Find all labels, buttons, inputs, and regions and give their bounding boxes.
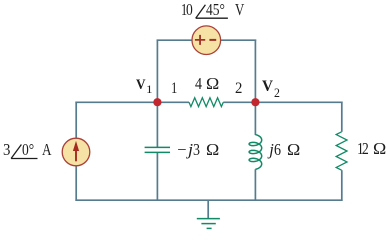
angle slash of 3/0 label	[11, 145, 21, 159]
wire: top loop horizontal right of source	[221, 39, 257, 41]
label node V1	[136, 78, 146, 92]
label ohm (right resistor)	[373, 141, 386, 158]
wire: bottom wire	[75, 199, 342, 201]
underline of 3/0 label	[11, 158, 37, 160]
ground bar 1	[197, 218, 220, 220]
label 0 deg (current source angle)	[22, 142, 34, 159]
label terminal 2	[235, 81, 242, 97]
node V2 dot	[251, 98, 259, 106]
label terminal 1	[171, 81, 177, 97]
wire: capacitor branch vertical below plates	[156, 153, 158, 201]
capacitor -j3 bottom plate	[145, 151, 170, 153]
label ohm (inductor)	[287, 142, 300, 159]
label node V1 subscript	[146, 85, 153, 97]
wire: right branch vertical below 12-ohm	[341, 170, 343, 201]
label 3 (current source magnitude)	[3, 142, 10, 159]
wire: top loop horizontal left of source	[157, 39, 193, 41]
voltage source U circle	[192, 26, 221, 55]
wire: left branch vertical above current source	[75, 102, 77, 139]
wire: inductor branch vertical below coil	[254, 169, 256, 201]
ground bar 2	[201, 223, 215, 225]
ground stem	[207, 200, 209, 218]
label 45 deg (voltage source angle)	[206, 2, 225, 19]
label 12 (right resistor value)	[357, 141, 364, 158]
label 10 (voltage source magnitude)	[181, 2, 187, 19]
label node V2	[262, 79, 273, 95]
label A unit (current source)	[42, 142, 52, 159]
wire: capacitor branch vertical above plates	[156, 102, 158, 147]
label j (capacitor value)	[188, 142, 193, 159]
node V1 dot	[153, 98, 161, 106]
label 4 (resistor value)	[195, 76, 202, 93]
current source arrow shaft	[75, 151, 77, 162]
current source arrow head	[73, 141, 79, 151]
label ohm (capacitor)	[206, 142, 219, 159]
ground bar 3	[207, 227, 212, 229]
current source I circle	[62, 138, 90, 166]
label minus (capacitor value)	[177, 142, 186, 159]
label j (inductor value)	[269, 142, 274, 159]
voltage source minus sign	[209, 39, 216, 41]
angle slash of 10/45 label	[196, 5, 206, 19]
wire: left branch vertical below current source	[75, 166, 77, 202]
wire: inductor branch vertical above coil	[254, 102, 256, 135]
label V unit (voltage source)	[235, 2, 244, 19]
wire: main horizontal right segment (4-ohm to right branch)	[223, 101, 342, 103]
wire: top loop left vertical from V1	[156, 40, 158, 103]
label ohm (4-ohm resistor)	[206, 76, 219, 93]
wire: top loop right vertical to V2	[254, 40, 256, 103]
wire: main horizontal left segment (node line to 4-ohm)	[75, 101, 189, 103]
underline of 10/45 label	[196, 17, 228, 19]
label node V2 subscript	[274, 87, 280, 100]
wire: right branch vertical above 12-ohm	[341, 102, 343, 132]
label 6 (inductor value digit)	[274, 142, 281, 159]
label 3 (capacitor value digit)	[193, 142, 200, 159]
voltage source plus sign	[195, 35, 205, 45]
capacitor -j3 top plate	[145, 146, 170, 148]
inductor j6 coil	[249, 135, 262, 170]
resistor 4-ohm zigzag	[189, 98, 223, 107]
resistor 12-ohm zigzag	[336, 132, 347, 170]
